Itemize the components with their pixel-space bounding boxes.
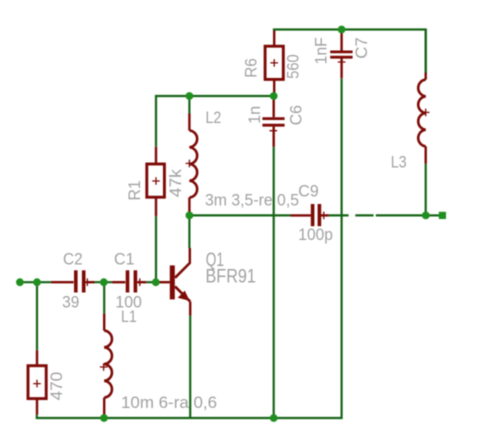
wire C7 bottom vertical and bottom ground rail xyxy=(37,78,342,418)
junction C6 branch on ground rail xyxy=(270,414,278,422)
svg-text:C9: C9 xyxy=(298,181,318,200)
junction L1 bottom on ground rail xyxy=(100,414,108,422)
wire input node to C2 xyxy=(20,281,51,283)
svg-text:BFR91: BFR91 xyxy=(206,267,256,288)
resistor R6 xyxy=(265,31,283,96)
svg-text:47k: 47k xyxy=(166,169,185,197)
wire emitter vertical to bottom rail xyxy=(189,316,191,418)
svg-text:39: 39 xyxy=(62,292,79,311)
wire C1 to base node xyxy=(146,281,157,283)
svg-text:L1: L1 xyxy=(121,307,137,326)
capacitor C2 xyxy=(51,270,94,292)
capacitor C1 xyxy=(112,270,146,292)
svg-text:R6: R6 xyxy=(241,58,260,78)
svg-text:1n: 1n xyxy=(245,106,264,124)
inductor L3 xyxy=(418,73,429,164)
wire junction to output pad xyxy=(428,214,440,216)
resistor R1 xyxy=(147,147,165,216)
svg-text:100p: 100p xyxy=(298,225,333,244)
wire between C2 and C1 xyxy=(95,281,113,283)
wire dash segment of output net xyxy=(355,214,373,216)
wire L3 top stub xyxy=(425,30,427,74)
wire L3 bottom stub xyxy=(425,164,427,216)
svg-text:L2: L2 xyxy=(206,108,222,127)
svg-text:C2: C2 xyxy=(63,250,83,269)
svg-text:L3: L3 xyxy=(391,153,407,172)
junction R6 bottom / C6 top xyxy=(270,92,278,100)
capacitor C6 xyxy=(262,96,284,147)
svg-text:10m 6-ra 0,6: 10m 6-ra 0,6 xyxy=(121,393,217,412)
junction top rail / C7 xyxy=(338,26,346,34)
svg-text:3m 3,5-re 0,5: 3m 3,5-re 0,5 xyxy=(205,190,299,209)
svg-text:C6: C6 xyxy=(287,105,306,125)
junction C2-C1 / L1 branch xyxy=(100,278,108,286)
capacitor C9 xyxy=(291,204,329,226)
svg-text:C7: C7 xyxy=(352,37,371,59)
wire R1 bottom vertical to base node xyxy=(155,216,157,282)
node output pad xyxy=(439,212,446,219)
inductor L2 xyxy=(186,114,198,214)
resistor 470 xyxy=(28,350,46,414)
wire collector node horizontal to C9 xyxy=(189,214,290,216)
wire R6 bottom junction left then down to R1 xyxy=(156,96,274,147)
inductor L1 xyxy=(100,314,112,415)
junction collector node xyxy=(186,212,194,220)
wire input junction down to 470 resistor xyxy=(36,282,38,350)
junction output net / L3 bottom xyxy=(422,212,430,220)
wire C6 bottom vertical to bottom rail xyxy=(273,147,275,418)
svg-text:R1: R1 xyxy=(125,180,144,200)
junction L2 top xyxy=(186,92,194,100)
wire node between C2 and C1 down to L1 xyxy=(103,282,105,313)
capacitor C7 xyxy=(330,31,352,79)
wire C9 right stub xyxy=(329,214,349,216)
junction input / 470 branch xyxy=(33,278,41,286)
wire top supply rail from R6 top corner to L3 corner xyxy=(274,30,426,74)
svg-text:560: 560 xyxy=(284,54,303,79)
svg-text:470: 470 xyxy=(47,372,66,401)
wire output net solid to junction xyxy=(376,214,426,216)
junction base node / R1 branch xyxy=(152,278,160,286)
transistor Q1 xyxy=(157,248,190,316)
wire L2 top stub xyxy=(188,96,190,114)
node input pin xyxy=(16,278,24,286)
wire collector vertical xyxy=(188,215,190,248)
svg-text:C1: C1 xyxy=(114,250,135,269)
svg-text:1nF: 1nF xyxy=(312,37,331,64)
